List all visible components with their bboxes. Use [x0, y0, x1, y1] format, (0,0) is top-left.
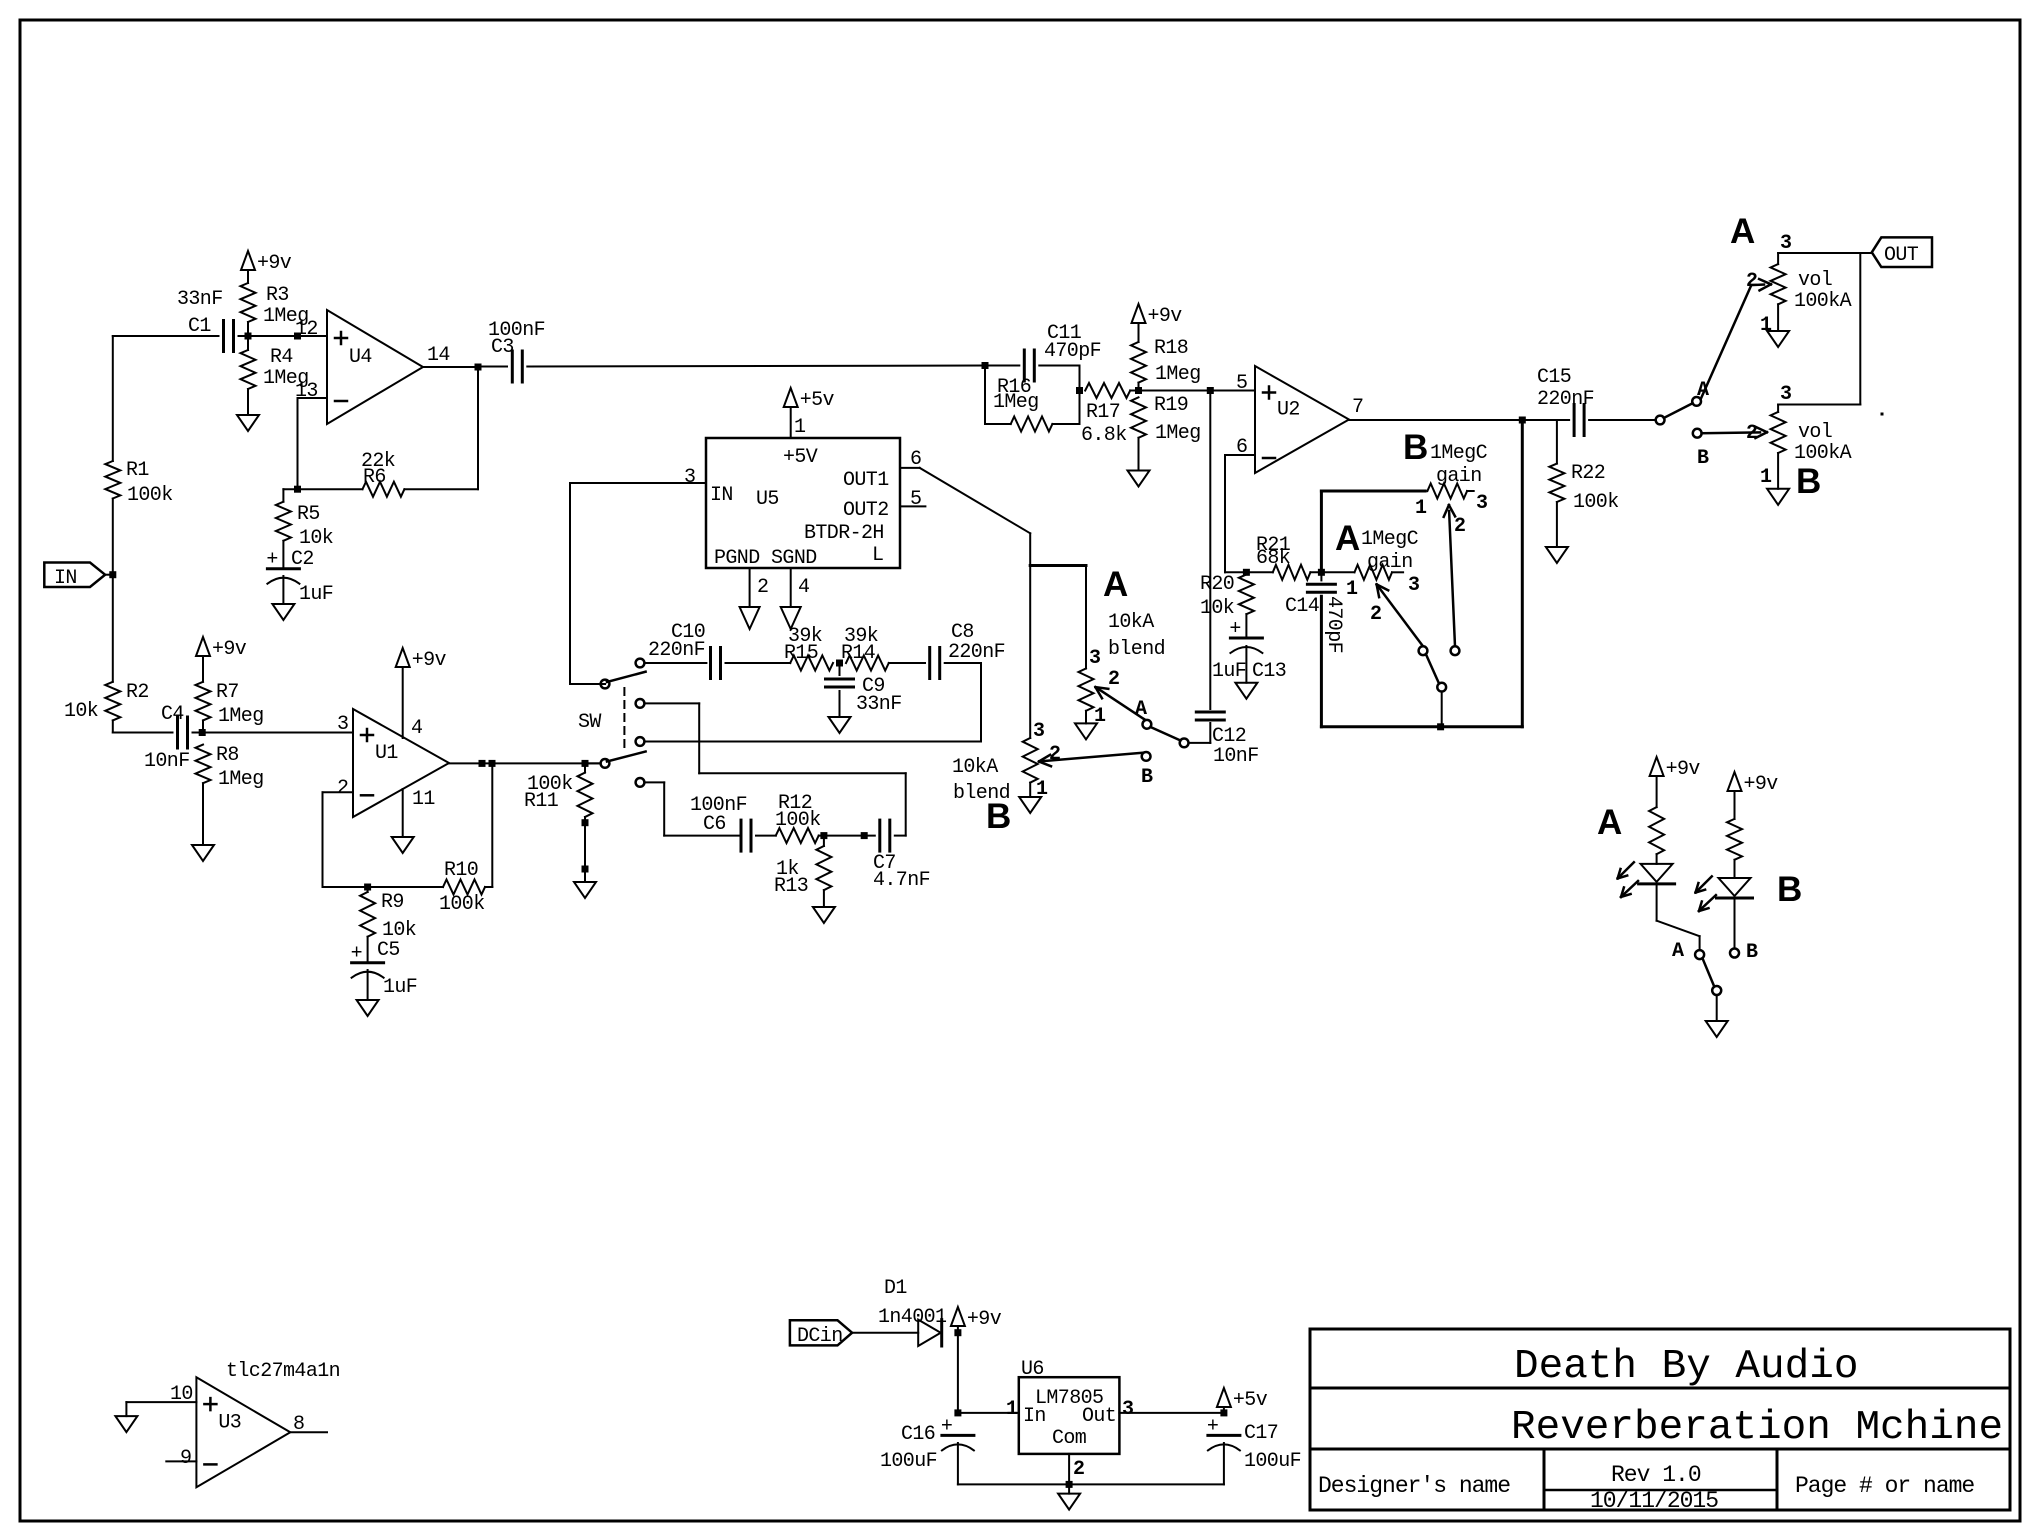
svg-text:100kA: 100kA: [1794, 290, 1852, 313]
svg-text:14: 14: [427, 344, 450, 367]
svg-text:10k: 10k: [1200, 597, 1234, 620]
svg-text:100k: 100k: [775, 809, 821, 832]
svg-text:U2: U2: [1277, 399, 1300, 422]
svg-text:vol: vol: [1798, 269, 1832, 292]
svg-text:3: 3: [1089, 647, 1100, 670]
svg-text:R11: R11: [524, 790, 559, 813]
svg-text:+5v: +5v: [800, 389, 835, 412]
svg-text:6.8k: 6.8k: [1081, 424, 1127, 447]
svg-text:R19: R19: [1154, 394, 1188, 417]
svg-text:7: 7: [1352, 396, 1363, 419]
svg-text:1uF: 1uF: [1212, 660, 1246, 683]
svg-text:11: 11: [412, 788, 435, 811]
svg-text:+9v: +9v: [1148, 305, 1183, 328]
svg-text:+: +: [941, 1415, 952, 1438]
svg-text:R5: R5: [297, 503, 320, 526]
svg-text:+9v: +9v: [1744, 773, 1779, 796]
svg-text:100k: 100k: [439, 893, 485, 916]
svg-text:1: 1: [1760, 466, 1772, 489]
svg-text:3: 3: [1033, 720, 1044, 743]
svg-text:10kA: 10kA: [952, 756, 998, 779]
svg-text:10nF: 10nF: [144, 750, 190, 773]
svg-text:Out: Out: [1082, 1405, 1116, 1428]
svg-text:10nF: 10nF: [1213, 745, 1259, 768]
svg-text:Designer's name: Designer's name: [1318, 1473, 1510, 1499]
svg-text:10/11/2015: 10/11/2015: [1590, 1488, 1718, 1514]
svg-text:C16: C16: [901, 1423, 935, 1446]
svg-text:+9v: +9v: [212, 638, 247, 661]
svg-text:SW: SW: [578, 711, 601, 734]
svg-text:R15: R15: [784, 642, 818, 665]
svg-text:R10: R10: [444, 859, 478, 882]
svg-text:100kA: 100kA: [1794, 442, 1852, 465]
svg-text:100k: 100k: [127, 484, 173, 507]
svg-text:+: +: [1229, 618, 1240, 641]
svg-text:+9v: +9v: [967, 1308, 1002, 1331]
svg-text:OUT1: OUT1: [843, 469, 889, 492]
svg-text:2: 2: [1746, 270, 1757, 293]
svg-text:B: B: [1746, 941, 1758, 964]
svg-text:5: 5: [1236, 372, 1247, 395]
svg-text:+: +: [351, 943, 362, 966]
svg-text:1: 1: [1094, 705, 1106, 728]
svg-text:DCin: DCin: [797, 1325, 843, 1348]
svg-text:R13: R13: [774, 875, 808, 898]
svg-text:C5: C5: [377, 939, 400, 962]
svg-text:C2: C2: [291, 548, 314, 571]
svg-text:3: 3: [1408, 574, 1419, 597]
svg-text:33nF: 33nF: [177, 288, 223, 311]
svg-text:2: 2: [337, 777, 348, 800]
svg-text:+9v: +9v: [1666, 758, 1701, 781]
svg-text:+9v: +9v: [257, 252, 292, 275]
svg-text:10k: 10k: [64, 700, 98, 723]
svg-text:5: 5: [910, 488, 921, 511]
svg-text:A: A: [1335, 519, 1360, 558]
svg-text:+: +: [1207, 1415, 1218, 1438]
svg-text:33nF: 33nF: [856, 693, 902, 716]
svg-text:C15: C15: [1537, 366, 1571, 389]
svg-text:+5V: +5V: [783, 446, 818, 469]
svg-text:1: 1: [794, 416, 806, 439]
svg-text:2: 2: [1073, 1458, 1084, 1481]
svg-text:220nF: 220nF: [648, 639, 705, 662]
svg-text:A: A: [1672, 940, 1684, 963]
svg-text:L: L: [872, 544, 883, 567]
svg-text:Rev 1.0: Rev 1.0: [1611, 1462, 1701, 1488]
svg-text:R3: R3: [266, 284, 289, 307]
svg-text:A: A: [1730, 212, 1755, 251]
svg-text:+5v: +5v: [1233, 1389, 1268, 1412]
svg-text:U1: U1: [375, 742, 398, 765]
svg-text:1: 1: [1036, 778, 1048, 801]
svg-text:blend: blend: [1108, 638, 1165, 661]
svg-text:R20: R20: [1200, 573, 1234, 596]
svg-text:A: A: [1135, 698, 1147, 721]
svg-text:D1: D1: [884, 1277, 907, 1300]
svg-text:U4: U4: [349, 346, 372, 369]
svg-text:2: 2: [757, 576, 768, 599]
svg-text:2: 2: [1108, 668, 1119, 691]
svg-text:3: 3: [684, 466, 695, 489]
svg-text:PGND SGND: PGND SGND: [714, 547, 817, 570]
svg-text:12: 12: [295, 318, 318, 341]
svg-text:C4: C4: [161, 703, 184, 726]
svg-text:gain: gain: [1367, 551, 1413, 574]
svg-text:C17: C17: [1244, 1422, 1278, 1445]
svg-text:R4: R4: [270, 346, 293, 369]
svg-text:1MegC: 1MegC: [1430, 442, 1488, 465]
svg-text:Death By Audio: Death By Audio: [1514, 1344, 1858, 1390]
svg-text:gain: gain: [1436, 465, 1482, 488]
svg-text:1MegC: 1MegC: [1361, 528, 1419, 551]
svg-text:1: 1: [1415, 497, 1427, 520]
svg-text:1Meg: 1Meg: [1155, 422, 1201, 445]
svg-text:68k: 68k: [1256, 547, 1290, 570]
svg-text:1Meg: 1Meg: [993, 391, 1039, 414]
svg-text:R9: R9: [381, 891, 404, 914]
svg-text:U3: U3: [218, 1411, 241, 1434]
svg-text:B: B: [986, 797, 1011, 836]
svg-text:C13: C13: [1252, 660, 1286, 683]
svg-text:1uF: 1uF: [299, 583, 333, 606]
svg-text:R2: R2: [126, 681, 149, 704]
svg-text:Com: Com: [1052, 1427, 1086, 1450]
svg-text:BTDR-2H: BTDR-2H: [804, 522, 884, 545]
svg-text:100uF: 100uF: [880, 1450, 937, 1473]
svg-text:470pF: 470pF: [1044, 340, 1101, 363]
svg-text:In: In: [1023, 1405, 1046, 1428]
svg-text:9: 9: [180, 1447, 191, 1470]
svg-text:1Meg: 1Meg: [1155, 363, 1201, 386]
svg-text:OUT: OUT: [1884, 244, 1919, 267]
svg-text:vol: vol: [1798, 421, 1832, 444]
svg-text:IN: IN: [710, 484, 733, 507]
svg-text:IN: IN: [54, 567, 77, 590]
svg-text:2: 2: [1370, 603, 1381, 626]
svg-text:1Meg: 1Meg: [218, 768, 264, 791]
svg-text:OUT2: OUT2: [843, 499, 889, 522]
svg-text:B: B: [1697, 447, 1709, 470]
svg-text:3: 3: [1476, 492, 1487, 515]
svg-text:A: A: [1103, 565, 1128, 604]
svg-text:B: B: [1796, 462, 1821, 501]
svg-text:100k: 100k: [1573, 491, 1619, 514]
svg-text:C6: C6: [703, 813, 726, 836]
svg-text:2: 2: [1454, 515, 1465, 538]
svg-text:4.7nF: 4.7nF: [873, 869, 930, 892]
svg-text:4: 4: [411, 717, 422, 740]
svg-text:1Meg: 1Meg: [218, 705, 264, 728]
svg-text:220nF: 220nF: [1537, 388, 1594, 411]
svg-text:B: B: [1141, 766, 1153, 789]
svg-text:1: 1: [1346, 578, 1358, 601]
svg-text:C3: C3: [491, 336, 514, 359]
svg-text:U6: U6: [1021, 1358, 1044, 1381]
svg-text:A: A: [1597, 803, 1622, 842]
svg-text:1uF: 1uF: [383, 976, 417, 999]
svg-text:10k: 10k: [299, 527, 333, 550]
svg-text:C14: C14: [1285, 595, 1319, 618]
svg-text:1n4001: 1n4001: [878, 1306, 947, 1329]
svg-text:tlc27m4a1n: tlc27m4a1n: [226, 1360, 340, 1383]
svg-text:3: 3: [1122, 1398, 1133, 1421]
svg-text:B: B: [1403, 428, 1428, 467]
svg-text:+: +: [266, 549, 277, 572]
svg-text:C1: C1: [188, 315, 211, 338]
svg-text:R1: R1: [126, 459, 149, 482]
svg-text:100uF: 100uF: [1244, 1450, 1301, 1473]
svg-text:Page # or name: Page # or name: [1795, 1473, 1974, 1499]
svg-text:R17: R17: [1086, 401, 1120, 424]
svg-text:+9v: +9v: [412, 649, 447, 672]
svg-text:R22: R22: [1571, 462, 1605, 485]
svg-text:1: 1: [1760, 314, 1772, 337]
svg-text:4: 4: [798, 576, 809, 599]
svg-text:R6: R6: [363, 466, 386, 489]
svg-text:R14: R14: [841, 642, 875, 665]
svg-text:3: 3: [1780, 232, 1791, 255]
svg-text:R7: R7: [216, 681, 239, 704]
svg-text:Reverberation Mchine: Reverberation Mchine: [1511, 1405, 2003, 1451]
svg-text:U5: U5: [756, 488, 779, 511]
svg-text:470pF: 470pF: [1322, 596, 1345, 653]
svg-text:1: 1: [1006, 1398, 1018, 1421]
svg-text:3: 3: [1780, 383, 1791, 406]
svg-text:220nF: 220nF: [948, 641, 1005, 664]
svg-text:B: B: [1777, 870, 1802, 909]
svg-text:10kA: 10kA: [1108, 611, 1154, 634]
svg-text:R8: R8: [216, 744, 239, 767]
svg-text:R18: R18: [1154, 337, 1188, 360]
